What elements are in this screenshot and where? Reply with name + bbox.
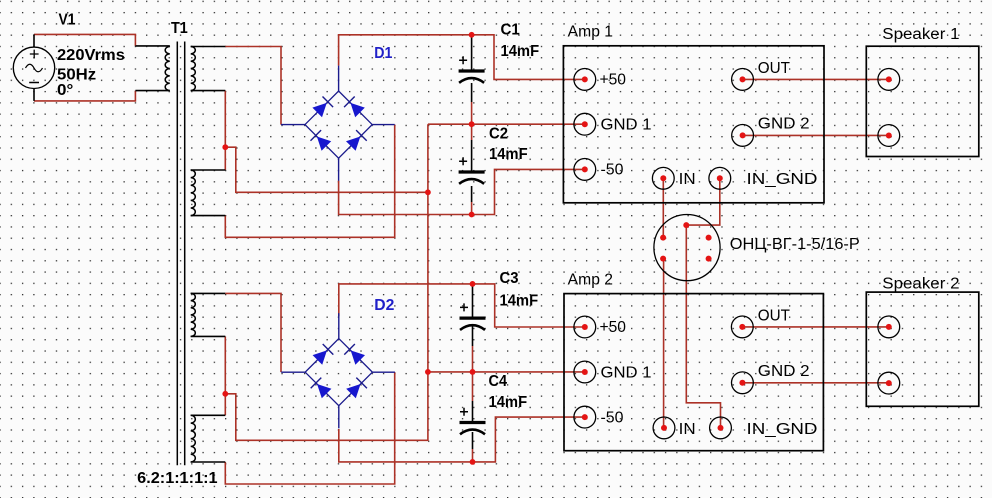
svg-text:14mF: 14mF <box>501 43 540 60</box>
svg-text:D2: D2 <box>374 297 394 314</box>
svg-text:V1: V1 <box>59 12 76 29</box>
svg-text:Amp 1: Amp 1 <box>568 24 613 41</box>
svg-text:GND 1: GND 1 <box>601 364 652 381</box>
svg-text:+50: +50 <box>600 319 627 336</box>
svg-text:T1: T1 <box>171 20 188 37</box>
svg-text:GND 1: GND 1 <box>601 117 652 134</box>
svg-text:220Vrms: 220Vrms <box>57 47 125 64</box>
svg-text:-50: -50 <box>601 162 624 179</box>
svg-text:0°: 0° <box>57 82 73 99</box>
svg-text:GND 2: GND 2 <box>758 363 810 380</box>
svg-text:14mF: 14mF <box>489 146 528 163</box>
svg-text:Speaker 2: Speaker 2 <box>882 275 959 292</box>
svg-text:C1: C1 <box>501 22 520 39</box>
svg-text:IN_GND: IN_GND <box>747 171 818 188</box>
svg-text:C3: C3 <box>500 270 519 287</box>
svg-text:D1: D1 <box>374 45 392 62</box>
svg-text:C4: C4 <box>489 373 508 390</box>
svg-text:50Hz: 50Hz <box>57 67 96 84</box>
svg-text:C2: C2 <box>489 125 508 142</box>
svg-text:GND 2: GND 2 <box>758 116 810 133</box>
svg-text:IN_GND: IN_GND <box>747 421 818 438</box>
svg-text:6.2:1:1:1:1: 6.2:1:1:1:1 <box>137 470 217 487</box>
svg-text:Amp 2: Amp 2 <box>568 272 613 289</box>
svg-text:14mF: 14mF <box>500 293 539 310</box>
svg-text:IN: IN <box>679 171 696 188</box>
svg-text:OUT: OUT <box>758 307 791 324</box>
svg-text:ОНЦ-ВГ-1-5/16-Р: ОНЦ-ВГ-1-5/16-Р <box>730 236 860 253</box>
svg-text:Speaker 1: Speaker 1 <box>882 26 959 43</box>
svg-text:IN: IN <box>679 421 696 438</box>
svg-text:-50: -50 <box>601 410 624 427</box>
svg-text:+50: +50 <box>600 71 627 88</box>
svg-text:OUT: OUT <box>758 60 791 77</box>
svg-text:14mF: 14mF <box>489 394 528 411</box>
